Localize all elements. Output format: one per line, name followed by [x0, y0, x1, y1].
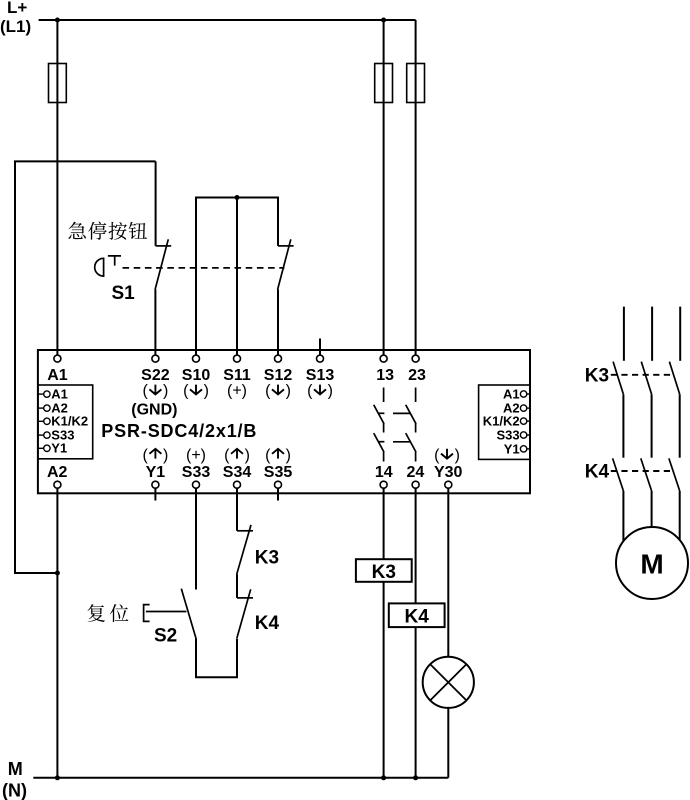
left LED label S33	[51, 428, 74, 443]
mechanical link lower contacts	[393, 441, 411, 443]
wire L+ down to terminal 13	[383, 20, 385, 355]
junction dot L+ / F2	[381, 18, 386, 23]
symbol (up) Y1	[142, 447, 168, 464]
svg-text:): )	[163, 447, 168, 464]
pin label 24	[407, 464, 425, 481]
junction dot branch / A2 wire	[55, 571, 60, 576]
stub above terminal S13	[319, 339, 321, 356]
safety relay U1 body	[38, 350, 530, 493]
svg-text:): )	[245, 447, 250, 464]
svg-text:Y30: Y30	[434, 464, 463, 481]
pin label S12	[264, 367, 293, 384]
wire S2 to K4 contact U-loop	[196, 638, 237, 678]
right LED label Y1	[504, 441, 520, 456]
svg-text:K3: K3	[255, 548, 279, 569]
contact K4 power pole 3	[669, 458, 680, 491]
mechanical link K3 poles dashed	[611, 374, 674, 376]
junction dot A2 / M rail	[55, 775, 60, 780]
terminal S11 circle	[234, 355, 241, 362]
contact K4 fixed tick	[237, 597, 253, 599]
svg-text:M: M	[8, 759, 23, 779]
wire phase L2 middle	[651, 394, 653, 457]
svg-text:A2: A2	[47, 464, 68, 481]
right LED A1	[520, 391, 530, 397]
wire phase 2 to motor	[651, 491, 653, 527]
svg-text:A1: A1	[503, 386, 520, 401]
pin label A1	[47, 367, 68, 384]
mechanical link S1 dashed	[123, 267, 285, 269]
symbol (down) S12	[265, 382, 291, 399]
label K4 coil	[405, 607, 430, 628]
fuse F1	[49, 64, 67, 103]
pin label S34	[223, 464, 252, 481]
svg-text:S33: S33	[496, 427, 519, 442]
contact K3 power pole 1	[613, 362, 623, 395]
svg-text:): )	[286, 447, 291, 464]
svg-text:(: (	[307, 382, 313, 399]
svg-text:): )	[163, 382, 168, 399]
terminal 13 circle	[380, 355, 387, 362]
label M motor	[640, 548, 663, 579]
svg-text:M: M	[640, 548, 663, 579]
pin label 14	[375, 464, 393, 481]
pin label S22	[141, 367, 170, 384]
wire bridge down to terminal S11	[236, 198, 238, 356]
relay contact path 13-14	[374, 388, 384, 462]
label 急停按钮 (emergency stop button)	[68, 222, 147, 240]
right LED A2	[520, 405, 530, 411]
svg-text:S35: S35	[264, 464, 293, 481]
wire bridge S10 to S1.2	[196, 198, 278, 356]
svg-text:): )	[328, 382, 333, 399]
contact S1.2 NC fixed tick	[278, 245, 294, 247]
svg-text:24: 24	[407, 464, 425, 481]
svg-text:): )	[455, 447, 460, 464]
node L+ (L1) supply label	[0, 0, 31, 36]
junction dot L+ / F1	[55, 18, 60, 23]
symbol (down) Y30	[434, 447, 460, 464]
contact K4 power pole 1	[613, 458, 624, 491]
actuator stem S1	[108, 256, 121, 266]
left LED A1	[38, 391, 50, 397]
contact S1.2 NC moving blade	[278, 239, 291, 289]
svg-text:(: (	[183, 382, 189, 399]
label K3 contactor	[585, 365, 609, 386]
pin label Y1	[146, 464, 166, 481]
wire contact S1.2 to terminal S12	[277, 290, 279, 356]
wire contact S1.1 to terminal S22	[154, 290, 156, 356]
svg-text:23: 23	[408, 367, 426, 384]
label 复位 (reset)	[88, 604, 129, 622]
svg-text:L+: L+	[7, 0, 27, 17]
wire coil K3 to M rail	[383, 582, 385, 778]
left LED K1/K2	[38, 418, 50, 424]
wire top supply rail L+	[39, 19, 416, 21]
wire Y30 down to lamp	[447, 488, 449, 657]
right LED Y1	[520, 446, 530, 452]
left LED Y1	[38, 445, 50, 451]
contact K4 NO moving blade (reset chain)	[237, 589, 251, 638]
indicator block left	[38, 385, 93, 459]
terminal S10 circle	[193, 355, 200, 362]
wire branch down to contact S1.1	[155, 161, 157, 246]
svg-text:Y1: Y1	[146, 464, 166, 481]
motor M1	[616, 527, 688, 599]
relay contact path 23-24	[406, 388, 416, 462]
contact tick 13-14 upper	[379, 412, 385, 414]
svg-text:(GND): (GND)	[131, 401, 177, 418]
wire phase L3 top	[679, 307, 681, 361]
mechanical link upper contacts	[393, 412, 411, 414]
svg-text:(: (	[265, 447, 271, 464]
wire branch rail to S1 and A2 loop	[15, 161, 156, 573]
svg-text:Y1: Y1	[51, 441, 67, 456]
svg-text:S2: S2	[154, 625, 177, 646]
right LED label A2	[503, 401, 520, 416]
contact S2 NO moving blade	[181, 589, 196, 638]
pin label S11	[223, 367, 251, 384]
svg-text:(: (	[434, 447, 440, 464]
svg-text:(: (	[224, 447, 230, 464]
indicator block right	[479, 385, 530, 459]
contact K3 power pole 3	[669, 362, 679, 395]
contact S1.1 NC fixed tick	[156, 245, 172, 247]
svg-text:K4: K4	[405, 607, 430, 628]
symbol (up) S35	[265, 447, 291, 464]
junction dot K3 / M rail	[381, 775, 386, 780]
terminal S35 circle	[275, 481, 282, 488]
right LED label K1/K2	[483, 414, 520, 429]
terminal 14 circle	[380, 481, 387, 488]
mushroom head actuator S1	[95, 258, 104, 276]
left LED label K1/K2	[51, 414, 88, 429]
contact K3 NO moving blade (reset chain)	[237, 525, 251, 574]
wire K3 to K4 contact	[236, 574, 238, 598]
pin label 13	[376, 367, 394, 384]
svg-text:13: 13	[376, 367, 394, 384]
wire L+ down to terminal A1	[56, 20, 58, 355]
terminal 23 circle	[412, 355, 419, 362]
wire phase L3 middle	[679, 394, 681, 457]
terminal S12 circle	[275, 355, 282, 362]
contact S1.1 NC moving blade	[155, 239, 168, 289]
junction dot bridge / S11	[235, 195, 240, 200]
terminal S22 circle	[152, 355, 159, 362]
right LED S33	[520, 432, 530, 438]
svg-text:S1: S1	[112, 283, 136, 304]
contactor coil K4 box	[389, 603, 445, 627]
wire phase 3 to motor	[679, 491, 681, 540]
svg-text:A1: A1	[51, 387, 68, 402]
svg-text:K4: K4	[255, 613, 280, 634]
left LED label A1	[51, 387, 68, 402]
svg-text:K1/K2: K1/K2	[483, 414, 520, 429]
actuator link S2	[146, 611, 187, 613]
svg-text:S33: S33	[182, 464, 211, 481]
pin label 23	[408, 367, 426, 384]
indicator lamp H1	[423, 657, 474, 708]
svg-text:(N): (N)	[2, 780, 27, 800]
right LED label A1	[503, 386, 520, 401]
pin label S35	[264, 464, 293, 481]
svg-text:(L1): (L1)	[0, 17, 31, 36]
label K3 coil	[372, 562, 396, 583]
terminal S33 circle	[193, 481, 200, 488]
wire phase L2 top	[651, 307, 653, 361]
symbol (down) S10	[183, 382, 209, 399]
terminal Y1 circle	[152, 481, 159, 488]
svg-text:Y1: Y1	[504, 441, 520, 456]
terminal Y30 circle	[445, 481, 452, 488]
svg-text:14: 14	[375, 464, 393, 481]
wire phase L1 middle	[622, 394, 624, 457]
right LED K1/K2	[520, 418, 530, 424]
symbol (+) S11	[227, 382, 247, 399]
wire lamp to M rail	[447, 708, 449, 778]
svg-text:K3: K3	[585, 365, 609, 386]
svg-text:(+): (+)	[186, 447, 206, 464]
pin label A2	[47, 464, 68, 481]
svg-text:(: (	[265, 382, 271, 399]
wire phase L1 top	[623, 307, 625, 361]
wire 14 down to coil K3	[383, 488, 385, 559]
label K4 contactor	[585, 462, 610, 483]
label K3 (reset chain)	[255, 548, 279, 569]
svg-text:K1/K2: K1/K2	[51, 414, 88, 429]
terminal A1 circle	[54, 355, 61, 362]
svg-text:(+): (+)	[227, 382, 247, 399]
fuse F3	[407, 64, 425, 103]
stub below terminal Y1	[154, 488, 156, 500]
terminal A2 circle	[54, 481, 61, 488]
contact K3 fixed tick	[237, 530, 253, 532]
left LED S33	[38, 432, 50, 438]
label K4 (reset chain)	[255, 613, 280, 634]
stub below terminal S35	[277, 488, 279, 500]
contact K3 power pole 2	[641, 362, 651, 395]
label S1	[112, 283, 136, 304]
wire S33 down to contact S2	[195, 488, 197, 589]
left LED label Y1	[51, 441, 67, 456]
left LED A2	[38, 405, 50, 411]
pin label Y30	[434, 464, 463, 481]
svg-text:): )	[204, 382, 209, 399]
label (GND)	[131, 401, 177, 418]
wire A2 to M rail	[56, 488, 58, 778]
svg-text:K3: K3	[372, 562, 396, 583]
actuator bracket S2	[144, 605, 150, 622]
wire phase 1 to motor	[622, 491, 624, 542]
terminal 24 circle	[412, 481, 419, 488]
label PSR-SDC4/2x1/B	[101, 421, 257, 441]
wire 24 down to coil K4	[415, 488, 417, 603]
left LED label A2	[51, 401, 68, 416]
junction dot K4 / M rail	[413, 775, 418, 780]
symbol (down) S13	[307, 382, 333, 399]
node M (N) label	[2, 759, 27, 800]
terminal S34 circle	[234, 481, 241, 488]
mechanical link K4 poles dashed	[611, 470, 674, 472]
svg-text:): )	[286, 382, 291, 399]
right LED label S33	[496, 427, 519, 442]
wire coil K4 to M rail	[415, 627, 417, 778]
svg-text:(: (	[142, 447, 148, 464]
svg-text:K4: K4	[585, 462, 610, 483]
symbol (+) S33	[186, 447, 206, 464]
contact K4 power pole 2	[641, 458, 652, 491]
wire L+ down to terminal 23	[415, 20, 417, 355]
label S2	[154, 625, 177, 646]
contact tick 13-14 lower	[379, 441, 385, 443]
terminal S13 circle	[317, 355, 324, 362]
contactor coil K3 box	[356, 559, 412, 582]
symbol (up) S34	[224, 447, 250, 464]
symbol (down) S22	[142, 382, 168, 399]
pin label S33	[182, 464, 211, 481]
svg-text:(: (	[142, 382, 148, 399]
wire S34 down to K3 contact	[236, 488, 238, 531]
pin label S13	[306, 367, 335, 384]
svg-text:S34: S34	[223, 464, 252, 481]
fuse F2	[375, 64, 393, 103]
svg-text:PSR-SDC4/2x1/B: PSR-SDC4/2x1/B	[101, 421, 257, 441]
svg-text:A1: A1	[47, 367, 68, 384]
wire bottom M rail	[33, 777, 448, 779]
pin label S10	[182, 367, 211, 384]
